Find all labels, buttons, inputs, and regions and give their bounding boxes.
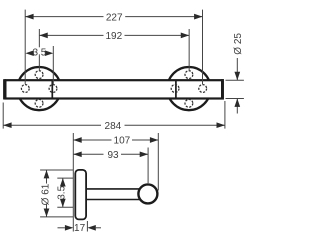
arrow 17 right (87, 225, 95, 231)
right collar line (175, 80, 177, 100)
arrow 227 right (194, 14, 202, 20)
ext line 35s bottom (57, 206, 73, 208)
arrow 107 left (73, 137, 81, 143)
screw hole right flange south (185, 99, 193, 107)
ext line 192 left (38, 29, 40, 47)
ext line 227 left (24, 10, 26, 85)
svg-text:3.5: 3.5 (57, 185, 68, 199)
ext line 227 right (202, 10, 204, 85)
screw hole left flange north (35, 71, 43, 79)
arrow 284 left (3, 122, 11, 128)
screw hole left flange west (21, 85, 29, 93)
flange side view (75, 170, 86, 220)
arrow dia25 top (234, 72, 240, 80)
ext line dia25 top (226, 79, 244, 81)
dim tail 17 left (58, 227, 65, 229)
left collar line (51, 80, 53, 100)
svg-text:107: 107 (114, 136, 131, 147)
ext line 93 right (147, 148, 149, 184)
dim tail 17 right (96, 227, 101, 229)
bar right end cap (221, 79, 224, 99)
arrow dia25 bottom (234, 99, 240, 107)
wall line side view (72, 133, 74, 232)
dim line 192 (39, 34, 103, 36)
screw hole right flange north (185, 71, 193, 79)
arrow 192 left (39, 33, 47, 39)
screw hole left flange east (49, 85, 57, 93)
arrow 93 right (140, 151, 148, 157)
arm top line (87, 188, 143, 190)
ext line dia61 bottom (40, 216, 73, 218)
right flange circle (167, 67, 210, 110)
arrow 35s bottom (60, 199, 66, 207)
ext line 35 right (52, 46, 54, 84)
ext line dia25 bottom (226, 98, 244, 100)
ext line 35s top (57, 177, 73, 179)
arrow 35s top (60, 178, 66, 186)
arrow dia61 bottom (44, 209, 50, 217)
svg-text:17: 17 (74, 223, 86, 234)
ext line 107 right (157, 133, 159, 191)
svg-text:93: 93 (107, 150, 119, 161)
dim line 227 (25, 16, 103, 18)
screw hole right flange west (171, 85, 179, 93)
dim line 107 (73, 139, 111, 141)
ext line 284 left (2, 103, 4, 129)
arrow 192 right (181, 33, 189, 39)
arrow 35 left (25, 50, 33, 56)
dim line 284 (3, 124, 101, 126)
ext line 17 right (86, 221, 88, 232)
arrow 227 left (25, 14, 33, 20)
dim line dia61 (46, 170, 48, 184)
arrow 35 right (45, 50, 53, 56)
arrow 107 right (150, 137, 158, 143)
screw hole right flange east (199, 85, 207, 93)
svg-text:192: 192 (105, 31, 122, 42)
arrow 284 right (217, 122, 225, 128)
dia25 leader lower (236, 99, 238, 114)
grab bar body (5, 80, 222, 98)
ext line 284 right (224, 101, 226, 129)
dim line 35s (62, 178, 64, 187)
ext line 192 right (188, 29, 190, 70)
svg-text:227: 227 (106, 12, 123, 23)
arrow 93 left (73, 151, 81, 157)
svg-text:Ø 61: Ø 61 (40, 183, 51, 205)
svg-text:Ø 25: Ø 25 (233, 33, 244, 55)
left flange circle (17, 67, 60, 110)
arrow 17 left (65, 225, 73, 231)
arrow dia61 top (44, 170, 50, 178)
bar left end cap (3, 79, 6, 99)
screw hole left flange south (35, 99, 43, 107)
svg-text:284: 284 (105, 121, 122, 132)
dim line 93 (73, 153, 103, 155)
arm bottom line (87, 199, 143, 201)
ext line dia61 top (40, 169, 73, 171)
svg-text:3.5: 3.5 (32, 47, 46, 58)
bar end circle (138, 184, 157, 203)
dia25 leader upper (236, 58, 238, 80)
